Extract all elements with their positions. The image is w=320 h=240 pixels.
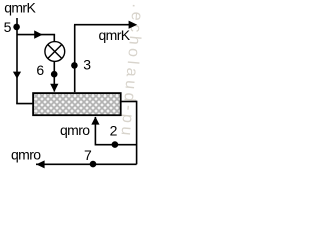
node 5 junction dot (13, 24, 20, 31)
arrow on W5 into exchanger top pointing down (50, 84, 58, 92)
watermark (116, 0, 147, 140)
wire W2 horizontal into exchanger left side (16, 103, 33, 105)
wire W9 right-side vertical down (136, 101, 138, 165)
svg-text:6: 6 (36, 62, 44, 78)
arrow on W11 into exchanger bottom pointing up (91, 117, 99, 125)
wire W6 vertical from top corner through node 3 to exchanger top (74, 25, 76, 93)
svg-text:7: 7 (84, 147, 92, 163)
svg-text:qmrK: qmrK (4, 0, 36, 15)
wire W10 horizontal return line with node 2 (95, 144, 136, 146)
arrow on W12 qmro pointing left (36, 160, 44, 168)
heat exchanger (hatched rectangle) (33, 93, 121, 115)
valve / mixer symbol (circle with X) (45, 42, 65, 62)
wire W8 exchanger right outlet (121, 101, 137, 103)
svg-text:2: 2 (110, 122, 118, 138)
svg-text:5: 5 (4, 19, 12, 35)
wire W11 vertical up into exchanger bottom (94, 117, 96, 146)
wire W1 vertical from node 5 down to lower-left corner (16, 18, 18, 104)
arrow on W7 qmrK pointing right (129, 21, 138, 29)
wire W4 vertical drop into valve top (53, 35, 55, 43)
wire W12 bottom qmro line (36, 163, 137, 165)
svg-text:3: 3 (83, 56, 91, 72)
node 2 junction dot (112, 141, 119, 148)
node 6 junction dot (51, 71, 58, 78)
svg-text:qmrK: qmrK (99, 27, 131, 43)
arrow on W3 pointing right (34, 30, 42, 38)
svg-text:qmro: qmro (11, 147, 41, 163)
svg-text:qmro: qmro (60, 122, 90, 138)
wire W7 horizontal qmrK output to the right (74, 24, 130, 26)
wire W5 vertical from valve bottom through node 6 into exchanger top (53, 61, 55, 91)
wire W3 horizontal from node 5 toward valve (17, 34, 55, 36)
node 7 junction dot (90, 161, 97, 168)
node 3 junction dot (71, 62, 78, 69)
arrow on W1 pointing down (13, 72, 21, 79)
